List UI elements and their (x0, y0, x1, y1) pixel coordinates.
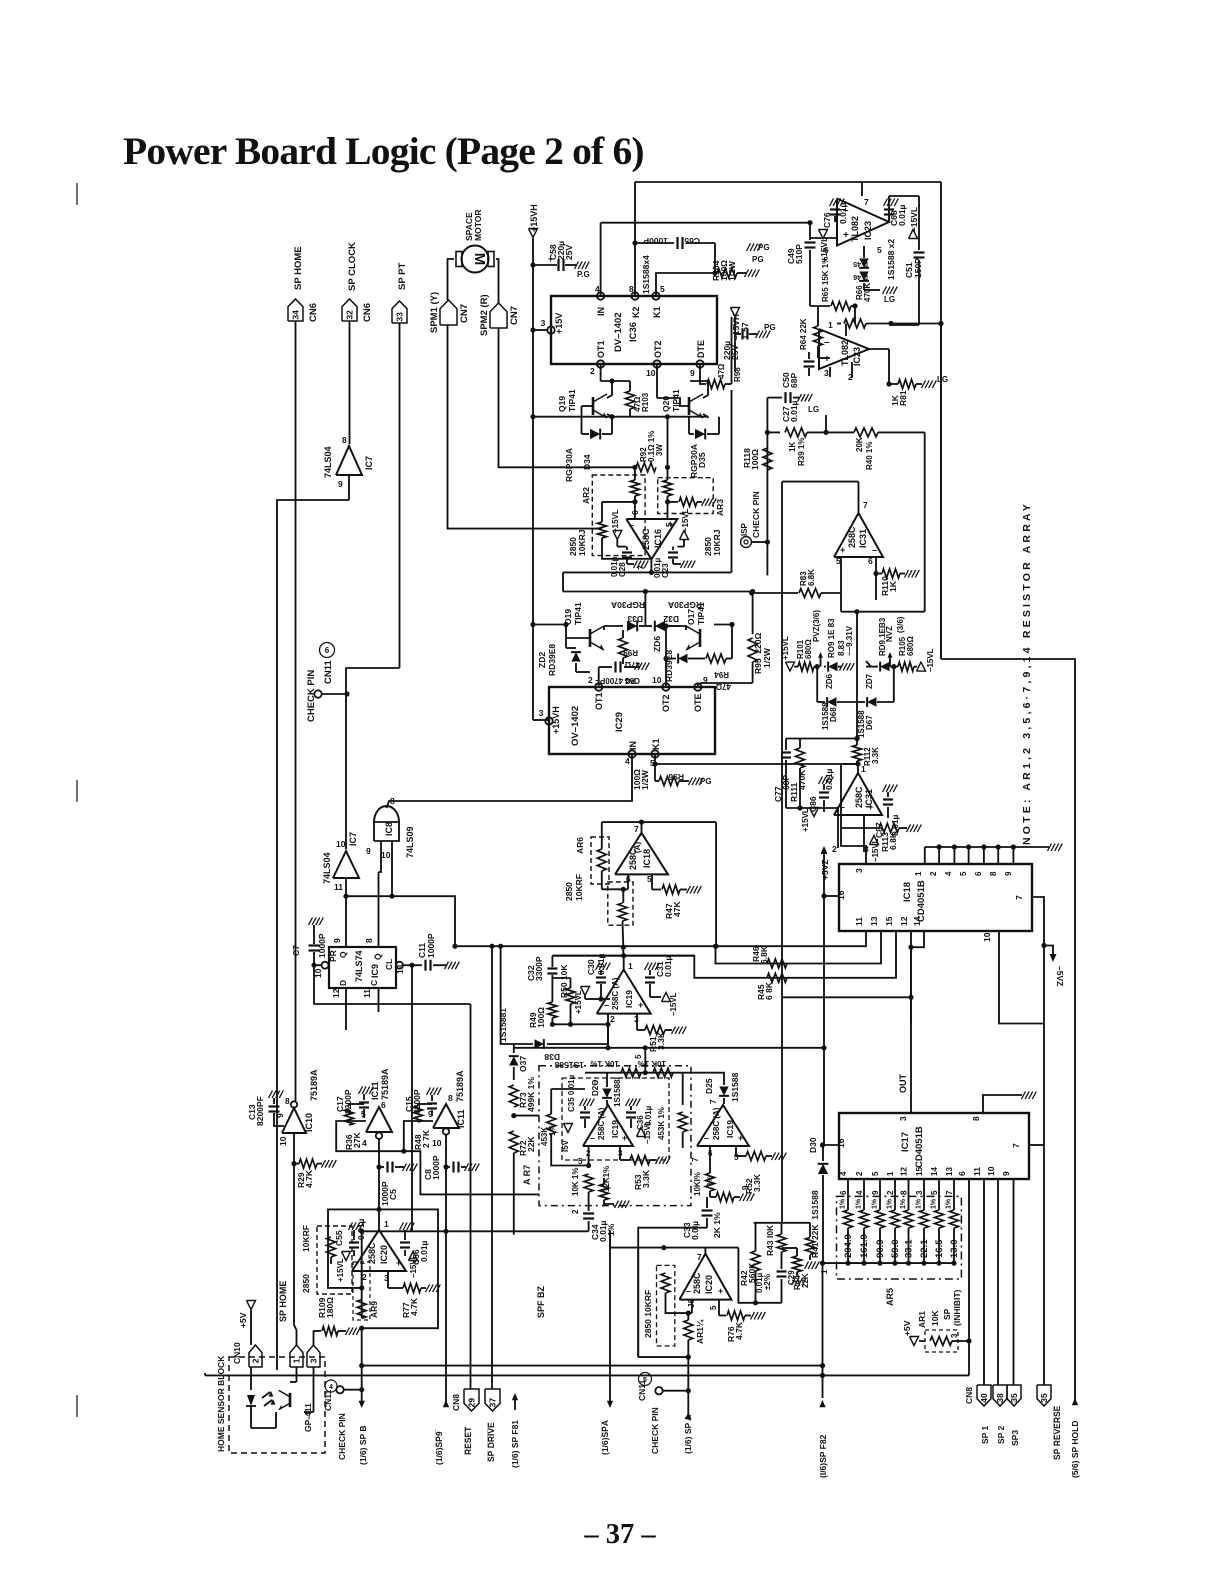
svg-text:4: 4 (625, 756, 630, 766)
junction +5VZ pin16 (821, 893, 826, 898)
wire pin2 down (361, 1288, 363, 1300)
IC29 pin 9 OTE (693, 675, 708, 712)
resistor R96 100ohm 1/2W (632, 769, 712, 790)
svg-text:8: 8 (900, 1190, 909, 1195)
svg-text:2: 2 (590, 366, 595, 376)
svg-text:NVZ: NVZ (885, 626, 894, 642)
svg-text:10: 10 (982, 932, 992, 942)
wire x924 down (924, 593, 926, 612)
resistor R83 6.8K (752, 569, 841, 598)
svg-text:0.01µ: 0.01µ (596, 953, 606, 975)
IC29 pin 10 OT2 (652, 675, 671, 712)
resistor AR2a (630, 467, 639, 502)
inner dash box IC19b (562, 1078, 669, 1160)
svg-text:MOTOR: MOTOR (473, 210, 483, 241)
svg-text:5: 5 (634, 1054, 643, 1059)
svg-text:LG: LG (937, 375, 948, 384)
wire IC11a out down (378, 1139, 380, 1209)
junction AR6b bottom (621, 945, 626, 950)
IC18 pin 15 (552, 916, 896, 978)
IC31a pin 7 (859, 482, 869, 513)
svg-text:75189A: 75189A (380, 1068, 390, 1100)
wire K2 drop (634, 182, 636, 296)
IC23b pin 3 (824, 367, 830, 378)
capacitor C23 0.01u (653, 547, 695, 578)
wire top bus left down (609, 1231, 611, 1248)
resistor R49 100ohm (528, 1002, 557, 1028)
svg-text:2850: 2850 (301, 1274, 311, 1293)
svg-text:CHECK PIN: CHECK PIN (306, 670, 317, 722)
junction ZD7/R105 (891, 664, 896, 669)
svg-text:SP HOME: SP HOME (278, 1281, 288, 1322)
svg-text:47K: 47K (672, 901, 682, 917)
wire +15VH to IC29 pin3 (533, 719, 548, 721)
svg-text:+: + (840, 545, 845, 555)
power -15VL IC19b (637, 1120, 653, 1144)
svg-text:5: 5 (877, 245, 882, 255)
wire CL x412 down (411, 1100, 413, 1231)
svg-text:OT2: OT2 (661, 694, 671, 712)
svg-text:R81: R81 (898, 390, 908, 406)
wire IC31b out to IC18 (841, 764, 866, 864)
wire IC19a apex up (623, 956, 625, 970)
svg-text:PVZ(3/6): PVZ(3/6) (812, 610, 821, 642)
svg-text:IC23: IC23 (863, 221, 873, 240)
resistor R110 1K (876, 569, 919, 596)
svg-text:2850: 2850 (564, 882, 574, 901)
power -15VL at IC23a (909, 207, 920, 239)
svg-text:5: 5 (643, 1377, 647, 1384)
svg-text:0.01µ: 0.01µ (897, 204, 907, 226)
wire C34 bus left (362, 1230, 589, 1232)
svg-text:CN6: CN6 (308, 303, 319, 322)
power +15VL zener rail (781, 636, 795, 671)
inverter IC11a 75189A (361, 1068, 392, 1148)
svg-text:4: 4 (855, 1190, 864, 1195)
svg-text:TIP41: TIP41 (573, 602, 583, 625)
svg-text:453K 1%: 453K 1% (657, 1107, 666, 1140)
svg-text:+15VL: +15VL (336, 1258, 345, 1282)
diode D68 1S1588 (817, 667, 857, 730)
svg-text:3: 3 (539, 708, 544, 718)
svg-text:–15VL: –15VL (871, 838, 880, 862)
IC17 pin 8 (971, 1092, 1036, 1122)
junction R42 bottom (753, 1300, 758, 1305)
svg-text:3.3K: 3.3K (752, 1173, 762, 1192)
connector CN8 pin 35 SP3 (1007, 1385, 1021, 1446)
transistor Q19 TIP41 (557, 389, 607, 418)
resistor AR1 10K (902, 1310, 962, 1352)
wire mid bus (534, 416, 708, 418)
svg-text:1%: 1% (916, 1198, 923, 1209)
wire pin2 down (607, 1024, 609, 1048)
svg-text:+: + (824, 354, 830, 365)
IC18 pin 11 (455, 917, 866, 946)
svg-text:1S1588x4: 1S1588x4 (641, 255, 651, 294)
svg-text:10K 1%: 10K 1% (571, 1168, 580, 1196)
capacitor C68 0.01u (884, 199, 908, 227)
resistor 10K1% v (571, 1168, 593, 1196)
svg-text:IC18: IC18 (642, 849, 652, 868)
check pin ISP (740, 491, 767, 547)
wire OTE down (697, 683, 699, 687)
capacitor C51 150P (889, 196, 925, 325)
wire SP HOME down (295, 321, 297, 1101)
junction ISP node (765, 539, 770, 544)
IC16 pin 7 (636, 559, 651, 572)
svg-text:20K: 20K (855, 437, 864, 452)
svg-text:3: 3 (824, 368, 829, 378)
signal (1/6) SP A (683, 1391, 693, 1454)
svg-text:4.7K: 4.7K (734, 1321, 744, 1340)
wire IC16 bottom bus (563, 571, 732, 573)
svg-text:1: 1 (628, 961, 633, 971)
resistor R53 3.3K (630, 1156, 670, 1191)
svg-text:(3/6): (3/6) (896, 616, 905, 633)
wire D25 top (683, 1073, 724, 1077)
wire K1 bus to IC31b (859, 763, 861, 765)
wire AR14 corner (638, 1356, 688, 1358)
svg-text:OTE: OTE (693, 693, 703, 712)
IC16 pin 6 label (630, 510, 640, 515)
svg-text:258C: 258C (854, 786, 864, 808)
resistor R51 3.3K (645, 1026, 686, 1053)
junction IC18a pin6 (621, 887, 626, 892)
svg-text:SPF BZ: SPF BZ (536, 1285, 546, 1318)
wire R73 node right (514, 1115, 539, 1117)
wire bottom bus left corner (562, 572, 564, 591)
IC9 74LS74 box (328, 947, 396, 988)
svg-text:– 37 –: – 37 – (583, 1519, 656, 1550)
resistor R94 47ohm (700, 654, 732, 691)
wire R65 node down (854, 306, 856, 324)
svg-text:IC36: IC36 (628, 322, 639, 342)
svg-text:CN8: CN8 (964, 1387, 974, 1404)
svg-text:D25: D25 (704, 1078, 714, 1094)
capacitor C35 0.01u (567, 1075, 594, 1128)
IC9 pin 9 (332, 938, 342, 943)
svg-text:3.3K: 3.3K (656, 1031, 666, 1050)
svg-text:IC23: IC23 (852, 347, 862, 366)
svg-text:+: + (738, 1133, 743, 1143)
svg-text:–15VL: –15VL (926, 648, 935, 672)
svg-text:PG: PG (752, 255, 764, 264)
resistor array AR5 dash box (837, 1196, 962, 1306)
op-amp IC20b 258C (679, 1254, 731, 1300)
binding mark top-left (76, 183, 78, 205)
wire SPM1 down (448, 325, 603, 529)
svg-text:LG: LG (808, 405, 819, 414)
resistor R77 4.7K (388, 1284, 440, 1319)
wire Q19 base drop (581, 406, 583, 434)
wire 2850 box tap (330, 1257, 332, 1264)
svg-text:6.8K: 6.8K (807, 569, 816, 586)
svg-text:O17: O17 (686, 609, 696, 625)
wire R42 bottom right (756, 1302, 782, 1304)
svg-text:(1/6) SP F81: (1/6) SP F81 (510, 1420, 520, 1468)
svg-text:1S1588 x2: 1S1588 x2 (886, 239, 896, 280)
wire SPM2 down (499, 328, 635, 467)
svg-text:SP 2: SP 2 (996, 1425, 1006, 1444)
svg-text:+: + (622, 1133, 627, 1143)
wire IC20b top bus (610, 1247, 738, 1249)
junction R73/R72 (511, 1113, 516, 1118)
resistor R73 499K 1% (509, 1077, 536, 1112)
power +15VL IC20a (336, 1252, 351, 1283)
svg-text:Q19: Q19 (557, 396, 567, 412)
resistor R40 20K 1% (826, 428, 925, 470)
wire motor left lead (448, 259, 455, 300)
signal (1/6)SP F82 (818, 1263, 828, 1478)
svg-text:150P: 150P (913, 258, 923, 278)
wire Q20 coll diag (690, 381, 708, 398)
label AR5 pin1 (820, 1269, 829, 1274)
resistor R45 6.8K (756, 973, 787, 1000)
connector pin 35 SP REVERSE (1037, 1385, 1062, 1460)
IC36 pin 10 OT2 (646, 340, 663, 378)
wire OT2 to Q20 (657, 398, 689, 406)
IC29 pin 3 (539, 708, 553, 725)
svg-text:(1/6)S̅P̅A̅: (1/6)S̅P̅A̅ (600, 1420, 610, 1455)
svg-text:AR1¼: AR1¼ (695, 1319, 705, 1344)
svg-text:D32: D32 (663, 614, 679, 624)
svg-text:29: 29 (467, 1398, 477, 1408)
svg-text:CN11: CN11 (323, 660, 334, 684)
svg-text:IC17: IC17 (900, 1132, 911, 1152)
svg-text:6.8K: 6.8K (888, 831, 898, 850)
wire bus to R83 (751, 592, 753, 594)
svg-text:3.3K: 3.3K (641, 1169, 651, 1188)
wire top bus right down (738, 1248, 755, 1303)
resistor R52 3.3K (744, 1152, 786, 1195)
svg-text:+5V: +5V (238, 1312, 248, 1328)
svg-text:SP 1: SP 1 (980, 1425, 990, 1444)
svg-text:7: 7 (1011, 1143, 1021, 1148)
svg-text:47Ω: 47Ω (717, 363, 726, 379)
resistor R41 22K (805, 1190, 821, 1269)
wire AR5 common bus (823, 1262, 955, 1264)
wire pins12-14 drop (783, 947, 911, 997)
svg-text:9: 9 (703, 675, 708, 685)
svg-text:CHECK PIN: CHECK PIN (751, 491, 761, 538)
capacitor C77 68P (773, 739, 791, 809)
svg-text:~–9.31V: ~–9.31V (845, 625, 854, 656)
wire R39 node up (825, 415, 827, 432)
wire IC11b out down (445, 1135, 447, 1404)
wire pin2 chain down (588, 1192, 590, 1211)
resistor array AR2 dashed (568, 475, 645, 556)
capacitor C32 3300P (526, 956, 557, 1002)
capacitor C30 0.01u (586, 953, 610, 1001)
wire SP PT jog (346, 668, 400, 849)
wire CL node down (411, 965, 413, 1100)
svg-text:4: 4 (839, 1171, 848, 1176)
capacitor C13 8200PF (247, 1091, 284, 1127)
signal NVZ (885, 626, 894, 667)
svg-text:8200PF: 8200PF (255, 1096, 265, 1126)
junction IC19a fb (605, 1045, 610, 1050)
check pin CN11 (5) (637, 1373, 691, 1455)
svg-text:258C (A): 258C (A) (597, 1107, 606, 1140)
junction K1/R104 (712, 270, 717, 275)
junction R101/ZD6 (815, 664, 820, 669)
svg-text:CHECK PIN: CHECK PIN (337, 1413, 347, 1460)
svg-text:37: 37 (488, 1398, 498, 1408)
svg-text:D34: D34 (582, 454, 592, 470)
svg-text:ZD7: ZD7 (865, 673, 874, 689)
svg-text:+: + (638, 1000, 643, 1010)
wire IN drop (600, 223, 602, 296)
svg-text:3W: 3W (655, 444, 664, 456)
IC17 pin 7 (1011, 1143, 1044, 1148)
resistor R81 1K (889, 375, 948, 406)
IC18 pins 1-9 top bus (914, 844, 1062, 877)
svg-text:R41 22K 1S1588: R41 22K 1S1588 (810, 1190, 820, 1258)
resistor R98 47ohm (707, 317, 742, 389)
svg-text:TL082: TL082 (840, 340, 850, 366)
svg-text:HOME SENSOR BLOCK: HOME SENSOR BLOCK (216, 1355, 226, 1452)
svg-text:R64 22K: R64 22K (799, 318, 808, 350)
junction fb1047 (643, 1045, 648, 1050)
svg-text:1S1588I: 1S1588I (613, 1077, 622, 1107)
signal PVZ(3/6) (812, 610, 823, 667)
svg-text:68P: 68P (789, 373, 799, 388)
inverter IC11b 75189A (428, 1070, 466, 1148)
connector CN8 pin 37 SP DRIVE (485, 1389, 500, 1462)
svg-text:0.01µ: 0.01µ (838, 202, 848, 224)
IC20a pin 3 (384, 1271, 389, 1288)
svg-text:3: 3 (541, 318, 546, 328)
capacitor C28 0.01u (610, 547, 648, 577)
wire SP REVERSE rail (1043, 1145, 1045, 1385)
svg-text:–5VZ: –5VZ (1055, 966, 1065, 986)
svg-text:IC16: IC16 (653, 529, 663, 548)
svg-text:11: 11 (334, 882, 343, 892)
wire K1 pin down (654, 754, 656, 781)
resistor R72 22K (509, 1131, 536, 1156)
svg-text:TIP41: TIP41 (671, 389, 681, 412)
svg-text:1/2W: 1/2W (640, 769, 650, 790)
wire R48 loop (404, 1121, 433, 1151)
svg-text:D68: D68 (829, 707, 838, 722)
wire D33 center up (644, 592, 646, 627)
svg-text:(I/6)SP F82: (I/6)SP F82 (818, 1434, 828, 1478)
svg-text:C7: C7 (291, 945, 301, 956)
capacitor C58 220u 25V (533, 241, 590, 279)
svg-text:40: 40 (979, 1393, 989, 1403)
wire OT2 down (656, 364, 658, 398)
IC36 DV-1402 box (551, 296, 717, 364)
svg-text:0.01µ: 0.01µ (419, 1240, 429, 1262)
junction D32 right (663, 623, 668, 628)
IC18a pin 6 (602, 874, 631, 889)
svg-text:TL082: TL082 (850, 216, 860, 242)
junction IC31b pin1 (855, 761, 860, 766)
resistor R64 22K (799, 306, 830, 358)
resistor R76 4.7K (726, 1311, 765, 1342)
svg-text:I5V: I5V (561, 1139, 570, 1152)
capacitor C8 1000P (423, 1155, 479, 1180)
svg-text:7: 7 (945, 1190, 954, 1195)
label SP HOME (278, 1281, 288, 1322)
svg-text:IC18: IC18 (902, 882, 913, 902)
svg-text:6 8K: 6 8K (764, 981, 774, 1000)
svg-text:(INHIBIT): (INHIBIT) (952, 1289, 962, 1326)
svg-text:SP: SP (942, 1308, 952, 1320)
svg-text:C: C (369, 980, 379, 986)
IC16 pin 5 label (664, 522, 674, 527)
capacitor C36 0.01u (626, 1099, 654, 1131)
wire Q19 coll diag (607, 381, 612, 398)
resistor AR2b feedback (598, 502, 652, 559)
svg-text:4: 4 (595, 284, 600, 294)
svg-text:1: 1 (861, 764, 866, 774)
junction IC20a top (376, 1207, 381, 1212)
power -15VL zener rail (917, 648, 936, 672)
IC9 pin 11 (362, 988, 379, 1012)
svg-text:K2: K2 (631, 306, 641, 318)
svg-text:0.01µ: 0.01µ (663, 955, 673, 977)
wire R98 node down (731, 390, 733, 572)
svg-text:5: 5 (660, 284, 665, 294)
resistor array 2850 10KRF b (643, 1265, 675, 1346)
svg-text:5: 5 (664, 522, 674, 527)
svg-text:ZD6: ZD6 (825, 673, 834, 689)
svg-text:D2Ɵ: D2Ɵ (591, 1080, 600, 1096)
svg-text:IC11: IC11 (456, 1109, 466, 1128)
wire IC11a loop (336, 1121, 404, 1151)
svg-text:10: 10 (432, 1138, 442, 1148)
power -15VL IC31b (870, 836, 881, 863)
junction R92 A (632, 465, 637, 470)
IC17 CD4051B box (839, 1113, 1029, 1179)
junction IC7b (343, 894, 348, 899)
IC19b pin 3 (618, 1146, 630, 1160)
diode D32 RGP30A (645, 600, 702, 631)
svg-text:74LS04: 74LS04 (323, 446, 333, 478)
svg-text:R65 15K 1%: R65 15K 1% (821, 257, 830, 302)
wire C33 bus (638, 1228, 707, 1357)
wire pent1 up (296, 1330, 298, 1345)
power -15VL IC20a (409, 1252, 419, 1279)
capacitor C29 0.01u 2% (755, 1270, 796, 1293)
resistor R105 680ohm (3/6) (894, 616, 917, 671)
IC19b pin 5 (578, 1157, 583, 1166)
svg-text:1000P: 1000P (643, 236, 668, 246)
svg-text:R40 1%: R40 1% (865, 442, 874, 470)
junction SPB/C34 (359, 1229, 364, 1234)
wire C77/R111 top (786, 738, 857, 740)
svg-text:1%: 1% (872, 1198, 879, 1209)
svg-text:IC19: IC19 (725, 1120, 735, 1138)
svg-text:1%: 1% (856, 1198, 863, 1209)
svg-text:+: + (396, 1258, 401, 1268)
wire R72 down (513, 1153, 515, 1235)
svg-text:7: 7 (691, 1157, 700, 1162)
svg-text:IN: IN (596, 307, 606, 316)
svg-text:8: 8 (971, 1116, 981, 1121)
check pin CN11 (4) (323, 1380, 364, 1460)
wire R66 node (891, 323, 941, 325)
svg-text:RO9 1E 83: RO9 1E 83 (827, 618, 836, 658)
svg-text:33: 33 (395, 312, 405, 322)
junction SPB bus (359, 1363, 364, 1368)
svg-text:+15VH: +15VH (529, 204, 539, 232)
inverter IC7 74LS04 (b) (322, 832, 359, 892)
junction mid 667 (665, 414, 670, 419)
capacitor C65 1000P (635, 236, 715, 249)
svg-text:3: 3 (309, 1358, 319, 1363)
